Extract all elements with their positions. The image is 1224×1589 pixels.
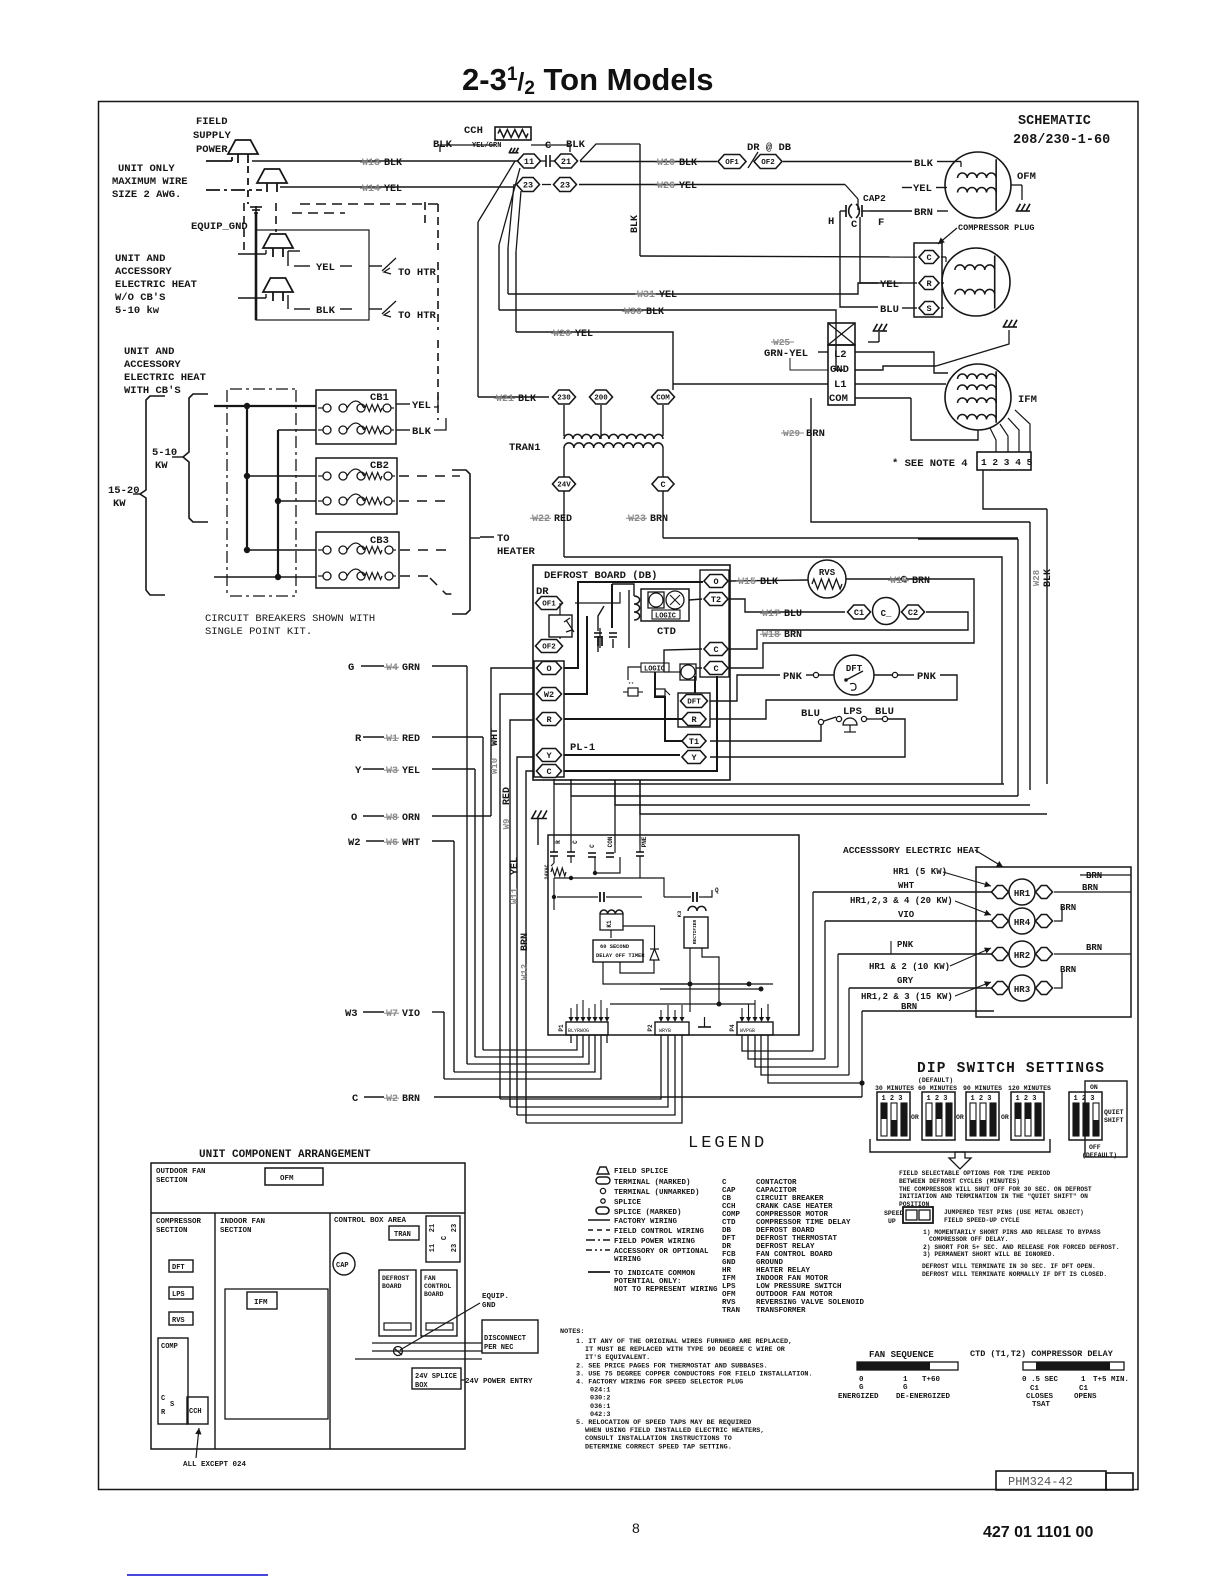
long vertical bus d — [515, 252, 517, 332]
svg-text:K3: K3 — [676, 910, 683, 917]
svg-text:W2: W2 — [544, 690, 554, 700]
long vertical bus a — [477, 222, 479, 397]
svg-text:2) SHORT FOR 5+ SEC. AND RELEA: 2) SHORT FOR 5+ SEC. AND RELEASE FOR FOR… — [923, 1244, 1120, 1251]
equip ground symbol — [250, 206, 262, 213]
wire YEL to HTR — [288, 250, 300, 252]
svg-text:RVS: RVS — [722, 1299, 736, 1307]
terminal 21 — [555, 154, 578, 168]
terminal COM tran — [652, 390, 675, 404]
svg-text:SECTION: SECTION — [156, 1177, 188, 1185]
svg-text:1) MOMENTARILY SHORT PINS AND: 1) MOMENTARILY SHORT PINS AND RELEASE TO… — [923, 1229, 1101, 1236]
fcb cap row 2 — [664, 896, 691, 898]
svg-text:T1: T1 — [689, 737, 699, 747]
svg-text:FAN: FAN — [424, 1275, 436, 1282]
terminal OF2 db — [536, 640, 563, 653]
svg-text:C: C — [572, 840, 579, 844]
svg-text:W18: W18 — [762, 630, 780, 641]
svg-text:GRY: GRY — [897, 976, 914, 986]
svg-text:LPS: LPS — [722, 1283, 736, 1291]
fcb contact R — [553, 845, 555, 852]
bundle P4 group — [742, 1035, 813, 1051]
terminal 11 — [518, 154, 541, 168]
legend splice marked symbol — [596, 1207, 609, 1214]
svg-text:P4: P4 — [729, 1024, 736, 1032]
relay K1 coil — [600, 910, 623, 914]
svg-text:042:3: 042:3 — [590, 1411, 610, 1419]
svg-text:BRN: BRN — [1086, 943, 1102, 953]
svg-text:YEL: YEL — [316, 262, 335, 274]
svg-text:SUPPLY: SUPPLY — [193, 130, 232, 142]
OFM motor — [945, 152, 1011, 218]
svg-text:OFM: OFM — [280, 1175, 294, 1183]
dip block 30 minutes — [877, 1092, 910, 1140]
terminal 23 a — [517, 178, 540, 192]
svg-text:BRN: BRN — [912, 576, 930, 587]
heater relay HR4 — [992, 915, 1009, 928]
svg-text:UNIT AND: UNIT AND — [124, 346, 174, 358]
speed plug box 1 2 3 4 5 — [977, 452, 1031, 470]
svg-text:FAN SEQUENCE: FAN SEQUENCE — [869, 1350, 934, 1360]
terminal OF2 — [754, 155, 782, 169]
svg-text:CB3: CB3 — [370, 535, 389, 547]
CTD coil — [634, 596, 640, 620]
svg-text:(DEFAULT): (DEFAULT) — [1082, 1152, 1117, 1159]
svg-text:MAXIMUM WIRE: MAXIMUM WIRE — [112, 176, 188, 188]
wire COM up — [672, 384, 674, 390]
svg-text:BLU: BLU — [880, 304, 899, 316]
svg-text:YEL: YEL — [402, 766, 420, 777]
svg-text:DFT: DFT — [172, 1264, 185, 1272]
relay contact square mid — [680, 664, 696, 680]
vertical BLK wire — [639, 144, 641, 256]
svg-text:SINGLE POINT KIT.: SINGLE POINT KIT. — [205, 626, 312, 638]
fan control board box — [548, 835, 799, 1035]
svg-text:CTD: CTD — [722, 1219, 736, 1227]
svg-text:HR: HR — [722, 1267, 732, 1275]
legend field power symbol — [586, 1239, 610, 1241]
svg-text:3) PERMANENT SHORT WILL BE IGN: 3) PERMANENT SHORT WILL BE IGNORED. — [923, 1251, 1055, 1258]
svg-text:5-10 kw: 5-10 kw — [115, 305, 160, 317]
svg-text:OFM: OFM — [1017, 171, 1036, 183]
svg-text:15-20: 15-20 — [108, 485, 140, 497]
svg-text:1. IT ANY OF THE ORIGINAL WIRE: 1. IT ANY OF THE ORIGINAL WIRES FURNHED … — [576, 1338, 792, 1346]
svg-text:GND: GND — [830, 364, 849, 376]
svg-text:IT MUST BE REPLACED WITH TYPE: IT MUST BE REPLACED WITH TYPE 90 DEGREE … — [585, 1346, 786, 1354]
CB3 pole 2 — [323, 572, 331, 580]
svg-text:G: G — [859, 1384, 864, 1392]
svg-text:W11: W11 — [510, 887, 520, 904]
wire W3 vertical — [443, 1012, 445, 1079]
svg-text:ACCESSORY: ACCESSORY — [124, 359, 181, 371]
svg-text:W6: W6 — [386, 838, 398, 849]
wire db row 784 — [554, 783, 1004, 785]
inner brace 5-10 KW — [183, 394, 208, 522]
OFM component box — [265, 1168, 323, 1185]
svg-text:2. SEE PRICE PAGES FOR THERMOS: 2. SEE PRICE PAGES FOR THERMOSTAT AND SU… — [576, 1362, 768, 1370]
svg-text:CONTACTOR: CONTACTOR — [756, 1179, 797, 1187]
svg-text:TRANSFORMER: TRANSFORMER — [756, 1307, 806, 1315]
wire G vertical — [466, 666, 468, 1064]
svg-text:IFM: IFM — [1018, 394, 1037, 406]
svg-text:NOTES:: NOTES: — [560, 1328, 584, 1336]
feed wire CB1 pole1 — [214, 405, 316, 407]
terminal C r2 — [704, 662, 728, 675]
svg-text:REVERSING VALVE SOLENOID: REVERSING VALVE SOLENOID — [756, 1299, 865, 1307]
svg-text:YEL: YEL — [384, 184, 402, 195]
svg-text:4. FACTORY WIRING FOR SPEED SE: 4. FACTORY WIRING FOR SPEED SELECTOR PLU… — [576, 1379, 743, 1387]
wire YEL to OFM — [820, 184, 845, 186]
svg-text:UP: UP — [888, 1218, 896, 1225]
fan sequence bar — [857, 1362, 958, 1370]
wire Y W3 YEL — [363, 768, 384, 770]
svg-text:W16: W16 — [890, 576, 908, 587]
outer brace 15-20 KW — [140, 396, 165, 595]
svg-text:QUIET: QUIET — [1104, 1109, 1124, 1116]
svg-text:5. RELOCATION OF SPEED TAPS MA: 5. RELOCATION OF SPEED TAPS MAY BE REQUI… — [576, 1419, 751, 1427]
IFM motor — [945, 364, 1011, 430]
svg-text:C1: C1 — [1079, 1385, 1089, 1393]
fcb cap row 1 — [557, 896, 598, 898]
CTD LOGIC label — [652, 610, 680, 619]
svg-text:W13: W13 — [362, 158, 380, 169]
svg-text:BLK: BLK — [646, 307, 664, 318]
svg-text:YEL: YEL — [659, 290, 677, 301]
terminal O right — [704, 575, 728, 588]
svg-text:BLK: BLK — [630, 215, 641, 233]
svg-text:CAP: CAP — [336, 1262, 349, 1270]
CB1 BLK out — [396, 429, 410, 431]
svg-text:HR2: HR2 — [1014, 951, 1030, 961]
dashed collector bracket right — [452, 470, 470, 614]
svg-text:BRN: BRN — [914, 207, 933, 219]
unit arrangement outer box — [151, 1163, 465, 1449]
contactor contact C — [540, 160, 546, 162]
wire O W8 ORN — [363, 815, 384, 817]
svg-text:BLK: BLK — [914, 158, 934, 170]
svg-text:INDOOR FAN MOTOR: INDOOR FAN MOTOR — [756, 1275, 829, 1283]
svg-text:SECTION: SECTION — [156, 1227, 188, 1235]
terminal 23 b — [554, 178, 577, 192]
svg-text:PNK: PNK — [917, 671, 937, 683]
wire plug pin1 down — [983, 470, 1047, 509]
wire into splice 1 — [206, 160, 232, 162]
svg-text:200: 200 — [594, 395, 608, 403]
svg-text:RED: RED — [554, 514, 572, 525]
wire 24V down — [563, 491, 565, 557]
svg-text:HR1 (5 KW): HR1 (5 KW) — [893, 867, 947, 877]
svg-text:036:1: 036:1 — [590, 1403, 610, 1411]
svg-text:LPS: LPS — [172, 1291, 185, 1299]
svg-text:CCH: CCH — [189, 1408, 202, 1416]
svg-text:UNIT COMPONENT ARRANGEMENT: UNIT COMPONENT ARRANGEMENT — [199, 1149, 371, 1161]
svg-text:DFT: DFT — [722, 1235, 736, 1243]
connector P2 — [655, 1022, 689, 1035]
wire BRN row — [862, 1010, 994, 1012]
T symbol — [698, 1026, 711, 1028]
NC contact slash — [748, 152, 758, 168]
svg-text:W28: W28 — [1032, 570, 1042, 586]
svg-text:W7: W7 — [386, 1009, 398, 1020]
CB3 pole 1 — [323, 546, 331, 554]
svg-text:DEFROST THERMOSTAT: DEFROST THERMOSTAT — [756, 1235, 838, 1243]
svg-text:BLU: BLU — [801, 708, 820, 720]
breaker CB3 box — [316, 532, 399, 588]
svg-text:OR: OR — [1001, 1114, 1009, 1121]
wire top right to IFM — [936, 330, 1009, 366]
svg-text:JUMPERED TEST PINS (USE METAL: JUMPERED TEST PINS (USE METAL OBJECT) — [944, 1209, 1084, 1216]
wire BLK to HTR — [287, 295, 289, 309]
svg-text:R: R — [926, 279, 932, 289]
svg-text:COMPRESSOR MOTOR: COMPRESSOR MOTOR — [756, 1211, 829, 1219]
terminal R comp — [919, 277, 939, 290]
wire WHT row — [813, 891, 994, 893]
HR2 right wires — [1054, 953, 1096, 955]
svg-text:8: 8 — [632, 1520, 640, 1536]
svg-text:BLK: BLK — [316, 305, 336, 317]
terminal 230 — [553, 390, 576, 404]
wire COM to W29 — [855, 397, 911, 399]
svg-text:W1: W1 — [386, 734, 398, 745]
svg-text:R: R — [546, 715, 552, 725]
wire L2 to IFM — [855, 352, 948, 373]
wire OF2 to OFM BLK — [783, 161, 912, 163]
wire L1 long — [855, 383, 946, 385]
svg-text:Q: Q — [715, 887, 719, 894]
svg-text:R: R — [691, 715, 697, 725]
compressor plug box — [914, 243, 942, 317]
DR relay coil box — [549, 615, 572, 637]
IFM fan leads — [990, 428, 996, 452]
logic box 2 — [641, 663, 669, 672]
svg-text:24V POWER ENTRY: 24V POWER ENTRY — [465, 1378, 533, 1386]
wire C tran down — [662, 491, 664, 538]
contactor coil C_ — [873, 598, 900, 625]
svg-text:SIZE 2 AWG.: SIZE 2 AWG. — [112, 189, 181, 201]
legend field control symbol — [588, 1229, 610, 1231]
svg-text:LEGEND: LEGEND — [688, 1134, 767, 1153]
field splice 2 — [257, 169, 287, 183]
svg-text:OFM: OFM — [722, 1291, 736, 1299]
cap H leg down — [840, 211, 878, 307]
svg-text:CB: CB — [722, 1195, 732, 1203]
svg-text:C: C — [161, 1395, 165, 1403]
CTD relay square — [648, 592, 664, 608]
svg-text:BLK: BLK — [412, 426, 432, 438]
svg-text:DIP SWITCH SETTINGS: DIP SWITCH SETTINGS — [917, 1061, 1105, 1077]
svg-text:DR: DR — [722, 1243, 732, 1251]
feed bus vertical 2 — [277, 430, 279, 577]
DISCONNECT PER NEC box — [482, 1320, 538, 1353]
svg-text:CTD (T1,T2) COMPRESSOR DELAY: CTD (T1,T2) COMPRESSOR DELAY — [970, 1349, 1114, 1359]
wire W9 RED vertical — [510, 720, 534, 1107]
svg-text:W23: W23 — [628, 514, 646, 525]
svg-text:C: C — [722, 1179, 727, 1187]
svg-text:**: ** — [628, 682, 634, 688]
svg-text:COMPRESSOR TIME DELAY: COMPRESSOR TIME DELAY — [756, 1219, 851, 1227]
svg-text:23: 23 — [451, 1244, 459, 1252]
svg-text:ACCESSORY OR OPTIONAL: ACCESSORY OR OPTIONAL — [614, 1248, 709, 1256]
svg-text:IFM: IFM — [722, 1275, 736, 1283]
svg-text:SPEED: SPEED — [884, 1210, 904, 1217]
svg-text:COMPRESSOR: COMPRESSOR — [156, 1218, 202, 1226]
svg-text:C_: C_ — [881, 609, 892, 619]
svg-text:EQUIP_GND: EQUIP_GND — [191, 221, 248, 233]
svg-text:BLYRWOG: BLYRWOG — [568, 1028, 589, 1034]
terminal C r1 — [704, 643, 728, 656]
cap symbol inner a — [594, 632, 602, 634]
svg-text:W12: W12 — [520, 964, 530, 980]
tran secondary drops — [563, 448, 565, 477]
svg-text:ALL EXCEPT 024: ALL EXCEPT 024 — [183, 1461, 247, 1469]
svg-text:BOX: BOX — [415, 1382, 428, 1390]
fcb wires lower — [620, 960, 654, 973]
legend splice symbol — [601, 1199, 605, 1203]
svg-text:FIELD SPEED-UP CYCLE: FIELD SPEED-UP CYCLE — [944, 1217, 1020, 1224]
svg-text:24V: 24V — [557, 482, 571, 490]
svg-text:O: O — [351, 812, 357, 824]
svg-text:HR4: HR4 — [1014, 918, 1031, 928]
terminal OF1 — [718, 155, 746, 169]
CAP component circle — [333, 1253, 355, 1275]
svg-text:W10: W10 — [490, 758, 500, 774]
terminal Y right — [682, 751, 706, 764]
svg-text:NOT TO REPRESENT WIRING: NOT TO REPRESENT WIRING — [614, 1286, 718, 1294]
fcb lower horizontals — [640, 983, 773, 985]
svg-text:PNK: PNK — [783, 671, 803, 683]
svg-text:W15: W15 — [738, 577, 756, 588]
heater feed verticals — [812, 892, 814, 1051]
wire Y vertical — [474, 769, 476, 1057]
terminal block 23 C 11 — [426, 1216, 460, 1262]
wire DFT right PNK — [874, 674, 892, 676]
wire W28 BLK vertical — [1046, 509, 1048, 784]
RVS component box — [169, 1312, 193, 1325]
gnd screw symbol — [394, 1347, 403, 1356]
svg-text:HR1 & 2 (10 KW): HR1 & 2 (10 KW) — [869, 962, 950, 972]
svg-text:R: R — [555, 840, 562, 844]
svg-text:YEL: YEL — [913, 183, 932, 195]
terminal C comp — [919, 251, 939, 264]
db small components — [628, 688, 638, 696]
transformer secondary winding — [564, 443, 663, 448]
svg-text:P1: P1 — [558, 1024, 565, 1032]
feed bus vertical 1 — [246, 406, 248, 550]
svg-text:CONTROL: CONTROL — [424, 1283, 451, 1290]
fcb contact PNE — [639, 845, 641, 852]
svg-text:T+60: T+60 — [922, 1376, 941, 1384]
dip block 60 minutes — [922, 1092, 955, 1140]
svg-text:(DEFAULT): (DEFAULT) — [918, 1077, 953, 1084]
svg-text:W2: W2 — [386, 1094, 398, 1105]
svg-text:DE-ENERGIZED: DE-ENERGIZED — [896, 1393, 951, 1401]
wire W20 YEL — [516, 332, 673, 384]
heater relay HR2 — [992, 948, 1009, 961]
svg-text:FIELD SPLICE: FIELD SPLICE — [614, 1168, 669, 1176]
svg-text:DEFROST RELAY: DEFROST RELAY — [756, 1243, 815, 1251]
svg-text:BLK: BLK — [679, 158, 697, 169]
wire W17 BLU — [729, 599, 845, 612]
DFT terminal box — [678, 693, 710, 727]
svg-text:W17: W17 — [762, 609, 780, 620]
svg-text:* SEE NOTE 4: * SEE NOTE 4 — [892, 458, 968, 470]
CCH bracket wires — [440, 145, 495, 152]
svg-text:WRYB: WRYB — [659, 1028, 671, 1034]
svg-text:SECTION: SECTION — [220, 1227, 252, 1235]
terminal S comp — [919, 302, 939, 315]
long vertical bus b — [498, 245, 500, 310]
svg-text:DEFROST: DEFROST — [382, 1275, 409, 1282]
svg-text:L1: L1 — [834, 379, 847, 391]
breaker CB1 box — [316, 390, 396, 444]
svg-text:427 01 1101 00: 427 01 1101 00 — [983, 1524, 1093, 1541]
fcb feed verticals — [553, 779, 555, 845]
svg-text:C: C — [352, 1093, 359, 1105]
svg-text:IT'S EQUIVALENT.: IT'S EQUIVALENT. — [585, 1354, 650, 1362]
terminal T2 — [704, 593, 728, 606]
svg-text:T+5 MIN.: T+5 MIN. — [1093, 1376, 1129, 1384]
svg-text:W31: W31 — [637, 290, 655, 301]
svg-text:1: 1 — [1081, 1376, 1086, 1384]
w/o-cb box — [256, 230, 369, 320]
svg-text:TO HTR: TO HTR — [398, 267, 437, 279]
wire O vertical to DB O — [491, 668, 534, 816]
svg-text:LOW PRESSURE SWITCH: LOW PRESSURE SWITCH — [756, 1283, 842, 1291]
wire COM to IFM bottom — [911, 398, 978, 440]
svg-text:BOARD: BOARD — [382, 1283, 402, 1290]
svg-text:TRAN1: TRAN1 — [509, 442, 541, 454]
legend common symbol — [588, 1271, 610, 1273]
right bus vertical x1018 — [1017, 539, 1019, 796]
switch to HTR 1 — [369, 265, 382, 267]
wire W21 BLK — [478, 396, 549, 398]
crossed box L2 top — [828, 323, 855, 345]
wire W2 W6 WHT — [366, 840, 384, 842]
svg-text:YEL/GRN: YEL/GRN — [472, 142, 501, 150]
grn-yel wire to L2 — [818, 351, 828, 353]
svg-text:TERMINAL (MARKED): TERMINAL (MARKED) — [614, 1179, 691, 1187]
svg-text:DELAY OFF TIMER: DELAY OFF TIMER — [596, 953, 645, 959]
hr vertical ties — [890, 941, 892, 954]
svg-text:T2: T2 — [711, 595, 721, 605]
svg-text:C1: C1 — [854, 608, 864, 618]
svg-text:R: R — [355, 733, 362, 745]
svg-text:DB: DB — [722, 1227, 732, 1235]
svg-text:COM: COM — [656, 395, 670, 403]
reversing valve solenoid RVS — [808, 560, 846, 598]
svg-text:CONSULT INSTALLATION INSTRUCTI: CONSULT INSTALLATION INSTRUCTIONS TO — [585, 1435, 732, 1443]
wire W16 BRN loop — [730, 579, 974, 668]
HR4 right wire — [1054, 906, 1062, 921]
terminal 200 — [590, 390, 613, 404]
svg-text:PNE: PNE — [641, 836, 648, 847]
svg-text:24V SPLICE: 24V SPLICE — [415, 1373, 457, 1381]
svg-text:FACTORY WIRING: FACTORY WIRING — [614, 1218, 678, 1226]
svg-text:TO: TO — [497, 533, 510, 545]
wire W31 YEL — [508, 283, 902, 294]
wire BRN to OFM — [870, 210, 912, 212]
svg-text:COMP: COMP — [722, 1211, 741, 1219]
svg-text:HEATER RELAY: HEATER RELAY — [756, 1267, 811, 1275]
svg-text:FIELD SELECTABLE OPTIONS FOR T: FIELD SELECTABLE OPTIONS FOR TIME PERIOD — [899, 1170, 1050, 1177]
svg-text:TRAN: TRAN — [722, 1307, 740, 1315]
svg-text:SCHEMATIC: SCHEMATIC — [1018, 114, 1091, 129]
low pressure switch LPS — [818, 719, 823, 724]
svg-text:024:1: 024:1 — [590, 1387, 610, 1395]
svg-text:23: 23 — [451, 1224, 459, 1232]
svg-text:KW: KW — [113, 498, 126, 510]
wire BLK into comp C — [640, 256, 917, 257]
fcb junction row — [554, 877, 640, 879]
